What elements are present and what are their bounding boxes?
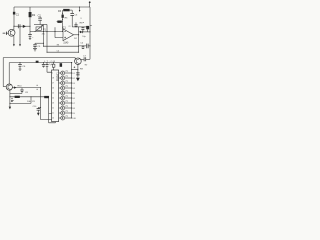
wire left drop x3.2	[2, 58, 4, 87]
wire y46 right segment to rail	[79, 44, 91, 49]
svg-text:D2: D2	[72, 78, 74, 80]
op-amp IC1	[62, 26, 74, 45]
LED D6 row6	[59, 95, 75, 100]
component bump on y62.5	[36, 61, 39, 63]
wire divider line y96.8	[10, 96, 49, 103]
svg-text:D6: D6	[72, 98, 74, 100]
wire feedback riser x62.6	[62, 10, 64, 31]
wire op-amp output	[74, 34, 80, 35]
svg-text:D9: D9	[72, 113, 74, 115]
svg-text:3140: 3140	[63, 43, 69, 45]
node dots mid	[43, 31, 63, 32]
node anode column top	[71, 62, 72, 63]
transistor T1	[8, 26, 15, 46]
wire link y93.4	[10, 92, 22, 94]
LED D8 row8	[59, 105, 75, 110]
capacitor C3	[70, 10, 78, 27]
svg-text:=a: =a	[68, 26, 70, 28]
wire bus y52	[47, 51, 79, 53]
LED D9 row9	[59, 110, 75, 115]
node junction A	[13, 26, 14, 27]
wire emitter ground stub	[19, 28, 21, 46]
wire drop x47	[46, 25, 48, 53]
svg-text:13: 13	[52, 103, 54, 105]
wire base line y26	[14, 25, 30, 27]
wire left drop x9.2	[8, 63, 10, 85]
tick on rail	[90, 24, 92, 26]
capacitor C4	[81, 27, 84, 32]
wire signal to IC pin5 x40.6	[40, 87, 52, 120]
wire lower link y103.4 with corner	[10, 96, 36, 103]
wire top supply rail	[14, 6, 90, 8]
svg-text:14: 14	[52, 98, 54, 100]
ground arrow T3	[9, 107, 11, 110]
wire left drop from rail	[13, 7, 15, 26]
IC U1 LM3915	[52, 70, 59, 122]
wire bus y62.5	[9, 62, 71, 64]
LED D3 row3	[59, 80, 75, 85]
wire y27 link	[72, 26, 87, 28]
transistor T2	[75, 58, 82, 65]
LED D5 row5	[59, 90, 75, 95]
capacitor C10 with ground arrow	[33, 106, 41, 116]
svg-text:11: 11	[52, 113, 54, 115]
diode arrow on y26	[23, 25, 26, 28]
svg-text:D10: D10	[72, 118, 75, 120]
wire emitter link to anode column	[71, 69, 78, 70]
svg-text:R2: R2	[32, 13, 36, 17]
node bus dots	[43, 46, 79, 53]
ground below R9	[76, 78, 80, 82]
component dark box x60.8	[60, 63, 63, 67]
svg-text:D8: D8	[72, 108, 74, 110]
resistor R4	[57, 18, 69, 23]
svg-text:C1: C1	[16, 12, 20, 16]
svg-text:18: 18	[52, 78, 54, 80]
node junction B	[30, 26, 31, 27]
node rail tick	[79, 7, 82, 20]
svg-text:D1: D1	[72, 73, 74, 75]
svg-text:D4: D4	[72, 88, 74, 90]
LED D1 row1	[59, 70, 75, 75]
capacitor C on rail x76	[75, 22, 78, 27]
resistor R2	[28, 7, 36, 40]
wire T3 collector line	[12, 85, 40, 88]
svg-text:15: 15	[52, 93, 54, 95]
svg-text:16: 16	[52, 88, 54, 90]
potentiometer P1	[35, 25, 47, 36]
wire drop x43.5	[43, 25, 45, 47]
capacitor hanging at x83	[82, 46, 85, 49]
capacitor C2a bars	[18, 24, 20, 28]
dots near x40 riser	[37, 85, 38, 90]
capacitor C1	[13, 12, 20, 17]
capacitor C7 hanging into IC pin	[45, 62, 51, 72]
pin numbers IC	[52, 73, 54, 120]
LED D10 row10	[59, 115, 76, 120]
svg-text:1: 1	[52, 73, 53, 75]
svg-text:D7: D7	[72, 103, 74, 105]
node rail junction	[90, 31, 91, 32]
capacitor CB between lines	[20, 88, 28, 94]
capacitor hanging x43.5	[42, 62, 45, 68]
wire output riser/dropper x78.6	[78, 27, 80, 52]
svg-text:LM3915: LM3915	[55, 73, 58, 82]
wire bus y57.5	[3, 57, 75, 59]
svg-text:3: 3	[80, 18, 81, 20]
wire IC left side net x48.6	[48, 96, 55, 123]
LED D7 row7	[59, 100, 75, 105]
svg-text:17: 17	[52, 83, 54, 85]
LED D4 row4	[59, 85, 75, 90]
resistor R5 on riser	[62, 15, 64, 18]
capacitor C5 with ground	[33, 43, 44, 51]
resistor R7	[83, 22, 89, 32]
resistor R3	[58, 9, 72, 13]
wire bus y46	[44, 45, 79, 47]
diode D2	[80, 31, 83, 33]
svg-text:D5: D5	[72, 93, 74, 95]
wire noninverting drop x55	[55, 27, 63, 37]
node feedback dots	[62, 13, 63, 20]
wire right supply rail	[89, 7, 91, 59]
wire y24.5 segment	[34, 24, 47, 26]
wire LED anode column	[71, 63, 73, 118]
capacitor C6 hanging from y62.5	[18, 62, 26, 70]
svg-text:LT.OR: LT.OR	[44, 61, 56, 63]
wire T3 emitter drop	[9, 90, 13, 107]
node +9V terminal	[89, 1, 91, 7]
component hanging x53.6	[52, 62, 55, 70]
svg-text:47k: 47k	[42, 34, 45, 36]
wire inverting input line y31.5	[30, 31, 63, 33]
wire detector line y31.9	[79, 31, 90, 33]
capacitor C7 collector	[81, 56, 90, 62]
svg-text:12: 12	[52, 108, 54, 110]
transistor T3	[3, 84, 12, 90]
svg-text:D3: D3	[72, 83, 74, 85]
capacitor input coupling	[3, 32, 9, 35]
capacitor C2	[38, 15, 42, 25]
LED D2 row2	[59, 75, 75, 80]
svg-text:10: 10	[52, 118, 54, 120]
resistor R9 emitter	[74, 65, 84, 78]
